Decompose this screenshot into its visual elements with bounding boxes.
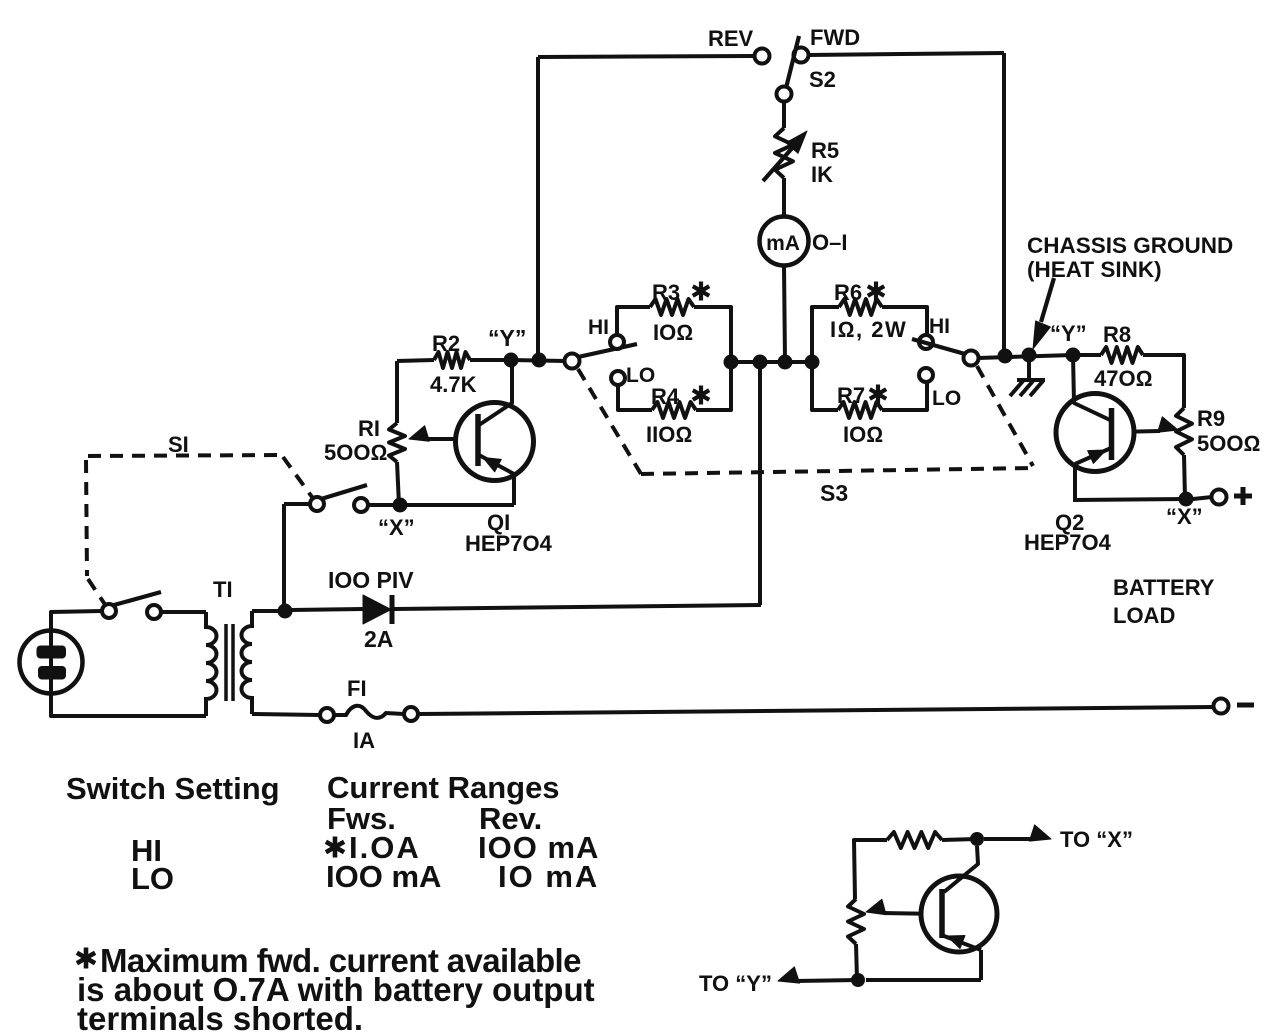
label Q2: [1055, 510, 1084, 535]
wire right riser from top rail down to chassis node: [1002, 53, 1006, 356]
label 1 ohm 2W (R6): [830, 317, 907, 342]
wire bottom rail fuse to minus terminal: [418, 707, 1213, 714]
label REV: [708, 26, 754, 51]
table header Current Ranges: [327, 770, 560, 805]
switch S1 upper contact left: [310, 497, 324, 511]
wire S2 pole to R5: [782, 101, 786, 128]
svg-text:Switch Setting: Switch Setting: [66, 771, 280, 806]
mini circuit potentiometer: [848, 899, 864, 980]
wire meter to center rail: [784, 266, 785, 361]
svg-text:Current Ranges: Current Ranges: [327, 770, 560, 805]
svg-text:terminals shorted.: terminals shorted.: [77, 1000, 363, 1036]
svg-text:LOAD: LOAD: [1113, 603, 1175, 628]
svg-text:HI: HI: [929, 315, 950, 338]
wire center riser (diode rail up to HI/LO rail): [758, 361, 762, 605]
svg-text:FWD: FWD: [810, 25, 860, 50]
switch S2 arm: [786, 36, 799, 88]
svg-text:R9: R9: [1197, 406, 1225, 431]
node Y junction dot (R2/Q1 collector): [504, 353, 519, 368]
label HI (left): [588, 316, 609, 339]
junction dot rectifier node: [278, 604, 293, 619]
wire node Y to S3 left pole: [511, 360, 565, 361]
wire plug bottom to T1 primary bottom: [51, 694, 206, 716]
label BATTERY: [1113, 575, 1215, 600]
label CHASSIS GROUND: [1027, 233, 1233, 258]
svg-text:IOΩ: IOΩ: [653, 320, 693, 345]
node X junction dot (left): [393, 498, 408, 513]
table row LO: [131, 861, 174, 896]
svg-text:S2: S2: [809, 67, 836, 92]
svg-text:FI: FI: [347, 676, 367, 701]
switch S3 left HI contact: [610, 335, 624, 349]
label R4*: [651, 384, 709, 409]
switch S3 right LO contact: [919, 368, 933, 382]
transistor Q2 HEP704: [1056, 355, 1134, 500]
table header Fws.: [327, 801, 396, 836]
svg-text:IK: IK: [811, 162, 833, 187]
switch S3 linkage dash left diagonal: [578, 369, 641, 474]
table value 100 mA fwd: [478, 830, 599, 865]
node Y junction dot (left riser): [532, 353, 547, 368]
resistor R3: [617, 299, 731, 362]
node Y junction dot (right): [1066, 348, 1081, 363]
svg-text:R3: R3: [652, 280, 680, 305]
svg-text:R5: R5: [811, 138, 839, 163]
svg-text:R2: R2: [432, 331, 460, 356]
svg-text:IΩ, 2W: IΩ, 2W: [830, 317, 907, 342]
mini circuit junction dot bottom: [851, 973, 865, 987]
svg-text:LO: LO: [932, 387, 961, 410]
label LO (right): [932, 387, 961, 410]
label TO Y: [699, 971, 772, 996]
label R3*: [652, 280, 709, 305]
junction dot chassis ground: [1022, 348, 1037, 363]
wire plug top to S1 lower left contact: [51, 611, 102, 631]
junction dot center rail at R6/R7: [805, 355, 820, 370]
wire T1 secondary top to rectifier node: [252, 609, 280, 613]
R1 wiper arm to Q1 base: [409, 426, 478, 441]
label R7*: [837, 383, 886, 408]
label 500 ohm R1: [324, 440, 387, 465]
label S2: [809, 67, 836, 92]
footnote line 1: [100, 942, 581, 979]
switch S2 pole contact: [777, 87, 792, 102]
node X label (left): [378, 515, 415, 540]
svg-text:TO “Y”: TO “Y”: [699, 971, 772, 996]
label R6*: [834, 280, 884, 305]
table value *1.0A: [326, 830, 421, 865]
table value 100 mA: [326, 859, 441, 894]
svg-text:IOΩ: IOΩ: [843, 422, 883, 447]
svg-text:IO mA: IO mA: [498, 859, 599, 894]
mini circuit junction dot top: [970, 832, 984, 846]
resistor R7: [812, 362, 927, 418]
label 10 ohm (R3): [653, 320, 693, 345]
svg-text:IIOΩ: IIOΩ: [646, 422, 692, 447]
switch S2 REV contact: [755, 49, 770, 64]
node Y label: [488, 325, 526, 351]
wire top rail right (FWD to right riser): [808, 53, 1004, 55]
wire diode to center riser: [394, 605, 761, 609]
label S1: [168, 432, 189, 457]
table header Rev.: [479, 801, 542, 836]
switch S3 right pole contact: [964, 351, 979, 366]
potentiometer R9: [1176, 408, 1192, 499]
switch S3 right arm: [912, 339, 965, 354]
switch S1 lower contact left: [102, 604, 116, 618]
wire S1 lower right contact to T1 primary: [161, 610, 206, 614]
svg-text:IA: IA: [353, 728, 375, 753]
label TO X: [1060, 827, 1133, 852]
resistor R2: [397, 352, 511, 368]
switch S3 left LO contact: [611, 371, 625, 385]
wire right pole to node Y right: [978, 355, 1073, 358]
label 2A: [364, 626, 393, 652]
svg-text:5OOΩ: 5OOΩ: [1197, 431, 1260, 456]
table row HI: [131, 833, 162, 868]
svg-text:R6: R6: [834, 280, 862, 305]
label 110 ohm (R4): [646, 422, 692, 447]
svg-text:RI: RI: [358, 416, 380, 441]
switch S1 lower section arm: [114, 592, 161, 605]
transistor Q1 HEP704: [456, 360, 534, 505]
switch S3 left pole contact: [565, 354, 580, 369]
wire Q1 emitter to node X: [400, 503, 514, 507]
wire S1 upper right contact to node X: [368, 503, 400, 507]
resistor R8: [1080, 347, 1184, 408]
junction dot center rail at diode riser: [753, 355, 768, 370]
svg-text:“Y”: “Y”: [488, 325, 526, 351]
label 4.7K: [430, 372, 477, 397]
svg-text:IOO PIV: IOO PIV: [328, 567, 414, 593]
wire left riser from top rail down to node Y: [536, 57, 540, 360]
meter M1 (mA): [760, 217, 809, 266]
svg-text:“Y”: “Y”: [1050, 321, 1087, 346]
wire R5 to meter: [782, 178, 786, 217]
label 0-1 meter range: [812, 230, 847, 255]
svg-text:R8: R8: [1103, 322, 1131, 347]
mini circuit wiper arm: [866, 899, 941, 914]
switch S1 linkage dash diagonal to lower section: [88, 579, 106, 606]
svg-text:SI: SI: [168, 432, 189, 457]
label HEP704 (Q2): [1024, 530, 1112, 555]
footnote line 2: [77, 971, 595, 1008]
svg-text:HI: HI: [588, 316, 609, 339]
switch S3 right HI contact: [919, 335, 933, 349]
switch S1 linkage dash left vertical: [86, 460, 87, 576]
svg-text:O–I: O–I: [812, 230, 847, 255]
svg-text:R4: R4: [651, 384, 680, 409]
label 100 PIV: [328, 567, 414, 593]
wire center rail (R3/R4 to R6/R7): [731, 360, 812, 364]
table value 10 mA: [498, 859, 599, 894]
label 1K: [811, 162, 833, 187]
wire rectifier node to diode: [291, 609, 363, 610]
svg-text:5OOΩ: 5OOΩ: [324, 440, 387, 465]
svg-text:S3: S3: [820, 480, 848, 506]
label R9: [1197, 406, 1225, 431]
junction dot center rail at meter: [778, 355, 793, 370]
svg-text:IOO mA: IOO mA: [326, 859, 441, 894]
label T1: [213, 577, 233, 602]
mini circuit arrow TO Y: [778, 967, 858, 983]
label 1A: [353, 728, 375, 753]
transformer T1 secondary winding: [242, 611, 253, 714]
label HI (right): [929, 315, 950, 338]
svg-text:HEP7O4: HEP7O4: [465, 531, 553, 556]
wire S1 upper left contact to rectifier node: [284, 504, 310, 611]
svg-text:TI: TI: [213, 577, 233, 602]
switch S2 FWD contact: [794, 48, 809, 63]
switch S3 linkage dash horizontal: [641, 468, 1033, 474]
fuse F1: [320, 706, 418, 722]
transformer T1 primary winding: [206, 612, 217, 716]
resistor R4: [618, 362, 731, 418]
chassis ground symbol: [1010, 355, 1045, 396]
AC plug P1: [20, 631, 83, 695]
table header Switch Setting: [66, 771, 280, 806]
label FWD: [810, 25, 860, 50]
label R1: [358, 416, 380, 441]
svg-text:LO: LO: [131, 861, 174, 896]
wire node X to plus terminal: [1193, 497, 1212, 499]
node X junction dot (right): [1179, 492, 1194, 507]
potentiometer R1: [389, 423, 405, 462]
label F1: [347, 676, 367, 701]
svg-text:4.7K: 4.7K: [430, 372, 477, 397]
svg-text:CHASSIS GROUND: CHASSIS GROUND: [1027, 233, 1233, 258]
svg-text:47OΩ: 47OΩ: [1094, 366, 1152, 391]
mini circuit transistor: [921, 846, 997, 980]
label HEP704 (Q1): [465, 531, 553, 556]
svg-text:(HEAT SINK): (HEAT SINK): [1027, 257, 1162, 282]
svg-text:HEP7O4: HEP7O4: [1024, 530, 1112, 555]
mini circuit bottom wire: [866, 978, 981, 982]
node Y label (right): [1050, 321, 1087, 346]
label (HEAT SINK): [1027, 257, 1162, 282]
footnote line 3: [77, 1000, 363, 1036]
wire Q2 emitter to node X right: [1073, 499, 1186, 500]
label 500 ohm (R9): [1197, 431, 1260, 456]
wire T1 secondary bottom to fuse: [252, 714, 320, 715]
svg-text:R7: R7: [837, 383, 865, 408]
svg-text:BATTERY: BATTERY: [1113, 575, 1215, 600]
mini circuit resistor (base-collector): [854, 832, 977, 899]
svg-text:REV: REV: [708, 26, 754, 51]
svg-text:2A: 2A: [364, 626, 393, 652]
label R2: [432, 331, 460, 356]
terminal plus: [1212, 487, 1253, 505]
svg-text:TO “X”: TO “X”: [1060, 827, 1133, 852]
label R8: [1103, 322, 1131, 347]
terminal minus: [1214, 699, 1255, 714]
footnote asterisk: [77, 948, 95, 969]
switch S1 linkage dash top horizontal: [88, 455, 281, 456]
label LO (left): [626, 364, 655, 387]
label Q1: [487, 510, 510, 535]
svg-text:mA: mA: [766, 232, 800, 255]
label S3: [820, 480, 848, 506]
switch S3 left arm: [578, 344, 637, 357]
label 10 ohm (R7): [843, 422, 883, 447]
switch S1 lower contact right: [147, 605, 161, 619]
svg-text:“X”: “X”: [1166, 504, 1203, 529]
resistor R6: [812, 299, 927, 362]
transformer T1 core: [226, 624, 233, 701]
label R5: [811, 138, 839, 163]
label LOAD: [1113, 603, 1175, 628]
label 470 ohm (R8): [1094, 366, 1152, 391]
junction dot center rail at R3/R4: [724, 355, 739, 370]
mini circuit arrow TO X: [984, 825, 1051, 841]
switch S1 upper contact right: [354, 498, 368, 512]
Q2 base to R9 wiper arm: [1111, 417, 1178, 432]
wire top rail left (to REV contact): [538, 56, 755, 57]
switch S1 upper section arm: [321, 485, 367, 499]
junction dot right riser: [998, 349, 1013, 364]
diode CR1 100PIV 2A: [363, 595, 392, 624]
wire R1 bottom to node X: [397, 462, 399, 505]
svg-text:“X”: “X”: [378, 515, 415, 540]
wire R2 left lead down to R1: [395, 361, 399, 423]
chassis ground pointer arrow: [1033, 278, 1054, 349]
node X label (right): [1166, 504, 1203, 529]
switch S3 linkage dash right diagonal: [977, 366, 1033, 466]
switch S1 linkage dash diagonal to upper section: [283, 457, 312, 497]
rheostat R5: [763, 128, 807, 181]
